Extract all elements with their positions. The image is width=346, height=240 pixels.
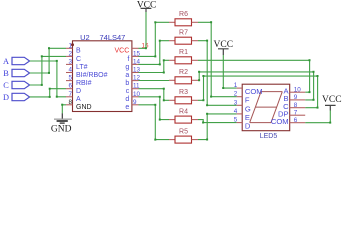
svg-text:A: A: [3, 57, 9, 66]
svg-text:7: 7: [294, 109, 298, 116]
U2 pin 5 lead: [66, 75, 92, 87]
U2 pin 6 lead: [66, 83, 81, 95]
wire U2 pin8 to ground: [61, 104, 66, 114]
port D: [3, 93, 30, 102]
svg-text:R4: R4: [179, 108, 188, 115]
U2 pin 1 lead: [66, 42, 81, 54]
U2 pin 2 lead: [66, 50, 81, 62]
svg-text:R2: R2: [179, 69, 188, 76]
U2 pin 12 lead b: [125, 75, 140, 87]
svg-text:a: a: [125, 72, 129, 79]
wire R3 to LED5 pin8 C: [198, 75, 319, 109]
port B: [3, 69, 29, 78]
power VCC symbol 1: [137, 0, 157, 12]
U2 pin 16 lead VCC: [115, 42, 149, 54]
U2 pin 9 lead e: [125, 99, 138, 111]
U2 pin 8 lead GND: [66, 99, 92, 111]
svg-text:D: D: [76, 88, 81, 95]
svg-text:1: 1: [68, 42, 72, 49]
svg-text:3: 3: [234, 99, 238, 106]
svg-text:2: 2: [234, 91, 238, 98]
svg-text:9: 9: [133, 99, 137, 106]
LED5 pin 7 lead DP: [278, 109, 305, 118]
LED5 pin 5 lead D: [234, 117, 251, 131]
wire port D to U2 pin6: [30, 88, 66, 98]
seven-segment digit figure: [250, 92, 283, 123]
svg-text:LED5: LED5: [260, 133, 278, 140]
svg-text:5: 5: [234, 117, 238, 124]
resistor R2: [169, 69, 198, 84]
svg-text:9: 9: [294, 94, 298, 101]
svg-text:GND: GND: [76, 104, 92, 111]
U2 pin 4 lead: [66, 67, 108, 79]
svg-text:1: 1: [234, 82, 238, 89]
svg-text:B: B: [76, 48, 81, 55]
resistor R3: [169, 89, 198, 104]
svg-text:b: b: [125, 80, 129, 87]
svg-text:10: 10: [294, 86, 302, 93]
svg-text:C: C: [76, 56, 81, 63]
wire U2 pin10 d to R4: [139, 96, 170, 121]
svg-text:RBI#: RBI#: [76, 80, 92, 87]
wire port C to U2 pin2: [30, 55, 66, 86]
ground symbol GND: [51, 113, 72, 134]
svg-text:7: 7: [68, 91, 72, 98]
U2 pin 3 lead: [66, 58, 88, 70]
wire U2 pin13 a to R1: [139, 59, 170, 73]
svg-text:VCC: VCC: [115, 48, 130, 55]
svg-text:A: A: [76, 96, 81, 103]
svg-text:D: D: [245, 122, 251, 131]
svg-text:8: 8: [68, 99, 72, 106]
wire R6 to LED5 pin2 F: [198, 21, 237, 97]
wire R1 to LED5 pin10 A: [198, 59, 311, 93]
U2 pin 14 lead g: [125, 58, 140, 70]
wire port A to U2 pin7: [30, 60, 66, 98]
LED5 pin 10 lead A: [284, 86, 306, 95]
svg-text:D: D: [3, 93, 9, 102]
svg-text:d: d: [125, 96, 129, 103]
svg-text:R3: R3: [179, 89, 188, 96]
wire VCC3 to LED5 pin6 COM: [305, 111, 331, 124]
U2 pin 10 lead d: [125, 91, 140, 103]
LED5 pin 6 lead COM: [271, 117, 305, 126]
port C: [3, 81, 29, 90]
wire U2 pin11 c to R3: [139, 88, 170, 102]
svg-text:LT#: LT#: [76, 64, 88, 71]
wire U2 pin15 f to R6: [139, 21, 170, 57]
seven-segment display LED5 body: [242, 84, 290, 140]
wire R5 to LED5 pin4 E: [198, 113, 237, 141]
wire port B to U2 pin1: [30, 47, 66, 74]
LED5 pin 1 lead COM: [234, 82, 263, 96]
wire U2 pin12 b to R2: [139, 80, 170, 82]
svg-text:4: 4: [234, 108, 238, 115]
wire VCC2 to LED5 pin1 COM: [222, 55, 236, 89]
LED5 pin 3 lead G: [234, 99, 251, 113]
svg-text:74LS47: 74LS47: [100, 33, 126, 42]
LED5 pin 2 lead F: [234, 91, 250, 105]
U2 pin 13 lead a: [125, 67, 140, 79]
svg-text:B: B: [3, 69, 9, 78]
power VCC symbol 2: [214, 40, 234, 55]
svg-text:C: C: [3, 81, 9, 90]
U2 pin 11 lead c: [126, 83, 140, 95]
LED5 pin 8 lead C: [283, 102, 305, 111]
U2 pin 7 lead: [66, 91, 81, 103]
resistor R7: [169, 30, 198, 45]
resistor R1: [169, 49, 198, 64]
resistor R5: [169, 128, 198, 143]
port A: [3, 57, 30, 66]
svg-text:BI#/RBO#: BI#/RBO#: [76, 72, 108, 79]
svg-text:R1: R1: [179, 49, 188, 56]
svg-text:g: g: [125, 64, 129, 71]
wire R4 to LED5 pin5 D: [198, 120, 237, 124]
svg-text:4: 4: [68, 67, 72, 74]
svg-text:2: 2: [68, 50, 72, 57]
svg-text:COM: COM: [271, 117, 289, 126]
LED5 pin 4 lead E: [234, 108, 250, 122]
resistor R6: [169, 11, 198, 26]
svg-text:3: 3: [68, 58, 72, 65]
power VCC symbol 3: [322, 95, 342, 111]
U2 pin 15 lead f: [127, 50, 140, 62]
svg-text:U2: U2: [80, 33, 90, 42]
LED5 pin 9 lead B: [284, 94, 306, 103]
wire U2 pin16 to VCC1: [139, 12, 147, 49]
resistor R4: [169, 108, 198, 123]
svg-text:c: c: [126, 88, 130, 95]
svg-text:VCC: VCC: [322, 95, 342, 105]
svg-text:R6: R6: [179, 11, 188, 18]
wire R7 to LED5 pin3 G: [198, 40, 237, 107]
svg-text:e: e: [125, 104, 129, 111]
wire U2 pin9 e to R5: [139, 104, 170, 141]
IC U2 74LS47 body: [71, 33, 132, 111]
wire U2 pin14 g to R7: [139, 40, 170, 66]
svg-text:5: 5: [68, 75, 72, 82]
svg-text:R7: R7: [179, 30, 188, 37]
svg-text:R5: R5: [179, 128, 188, 135]
svg-text:8: 8: [294, 102, 298, 109]
svg-text:6: 6: [294, 117, 298, 124]
svg-text:f: f: [127, 56, 129, 63]
wire R2 to LED5 pin9 B: [198, 71, 315, 101]
svg-text:GND: GND: [51, 124, 72, 134]
svg-text:6: 6: [68, 83, 72, 90]
